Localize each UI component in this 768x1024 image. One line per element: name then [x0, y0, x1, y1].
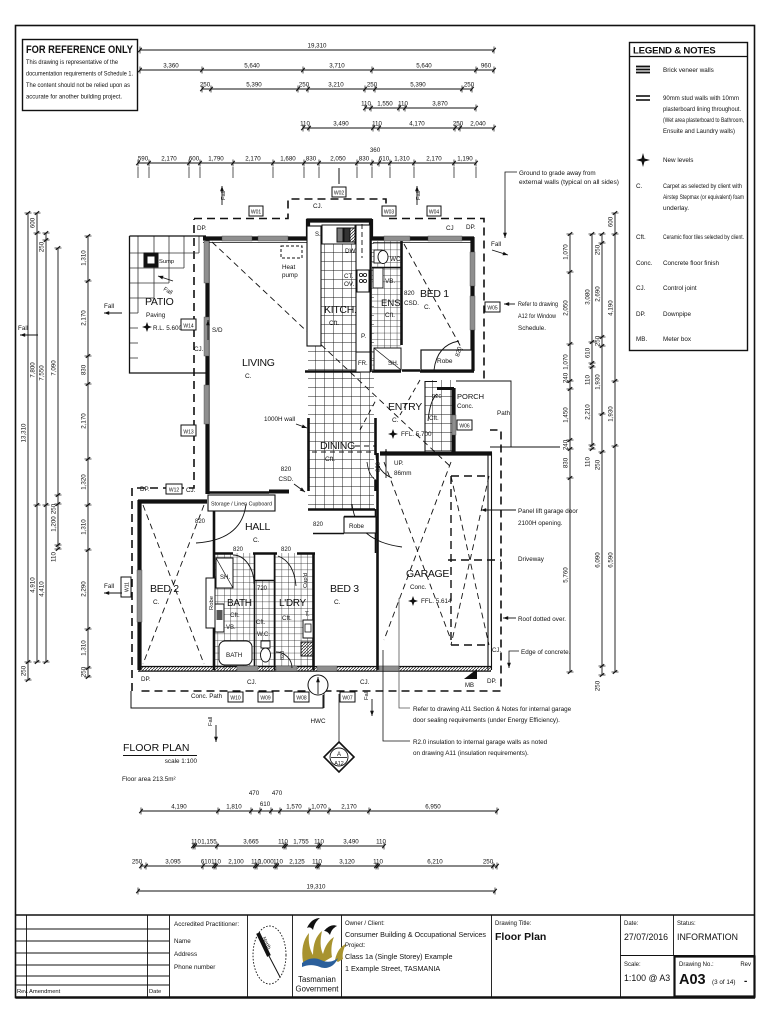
- exterior wall bed2 top: [138, 499, 207, 503]
- svg-text:W08: W08: [296, 696, 307, 702]
- svg-text:OV.: OV.: [344, 281, 355, 288]
- interior wall bath/wc divider: [254, 553, 256, 670]
- exterior wall bed1 right: [470, 237, 474, 371]
- svg-text:MB: MB: [465, 683, 474, 689]
- exterior wall top: [203, 219, 474, 240]
- svg-text:2,040: 2,040: [470, 121, 486, 128]
- left dimension row 2: [30, 211, 41, 664]
- svg-text:19,310: 19,310: [307, 884, 326, 891]
- svg-text:Cft.: Cft.: [282, 615, 292, 622]
- accredited practitioner cell: [174, 915, 248, 998]
- svg-text:1,070: 1,070: [311, 804, 327, 811]
- svg-text:4,170: 4,170: [409, 121, 425, 128]
- svg-text:19,310: 19,310: [308, 43, 327, 50]
- legend symbol new levels: [636, 153, 693, 167]
- legend entry carpet: [636, 183, 744, 212]
- svg-text:3,665: 3,665: [243, 839, 259, 846]
- svg-text:C.: C.: [245, 373, 252, 380]
- svg-text:3,710: 3,710: [329, 63, 345, 70]
- svg-text:1,755: 1,755: [293, 839, 309, 846]
- svg-text:CJ.: CJ.: [194, 346, 204, 353]
- left dimension total 13310: [21, 211, 32, 682]
- interior wall entry/bed3 area vertical: [375, 534, 377, 553]
- bottom dimension row 1: [139, 804, 499, 815]
- kitchen sink unit: [315, 225, 355, 244]
- svg-text:accurate for another building: accurate for another building project.: [26, 94, 122, 101]
- ldry trough: [303, 620, 313, 638]
- wc toilet: [261, 641, 271, 662]
- svg-text:240: 240: [563, 439, 570, 450]
- svg-text:110: 110: [585, 375, 592, 385]
- svg-text:Date:: Date:: [624, 921, 639, 927]
- fall arrow bottom 1: [208, 717, 218, 742]
- svg-text:250: 250: [453, 121, 464, 128]
- svg-text:820: 820: [233, 547, 244, 553]
- svg-text:Conc.: Conc.: [636, 260, 653, 267]
- svg-text:CJ: CJ: [446, 225, 454, 232]
- svg-text:S/D: S/D: [212, 327, 223, 334]
- svg-text:A03: A03: [679, 972, 706, 988]
- svg-text:Fall: Fall: [18, 325, 28, 332]
- for-reference-only note box: [23, 40, 138, 111]
- svg-text:BED 2: BED 2: [150, 583, 179, 595]
- exterior wall bottom: [138, 667, 491, 672]
- fall arrow left margin: [18, 325, 38, 337]
- svg-text:1,810: 1,810: [226, 804, 242, 811]
- svg-text:The content should not be reli: The content should not be relied upon as: [26, 82, 130, 89]
- svg-text:Heat: Heat: [282, 264, 296, 271]
- W05 label box: [485, 302, 500, 312]
- svg-text:ENS.: ENS.: [381, 298, 403, 309]
- svg-text:610: 610: [260, 801, 271, 808]
- svg-text:Paving: Paving: [146, 312, 166, 319]
- svg-text:Robe: Robe: [209, 596, 215, 610]
- svg-text:86mm: 86mm: [394, 470, 412, 477]
- svg-text:Driveway: Driveway: [518, 556, 545, 563]
- garage entry door arc: [367, 462, 378, 481]
- interior wall kitchen/ens divider: [369, 239, 372, 372]
- svg-text:Schedule.: Schedule.: [518, 325, 546, 332]
- svg-text:Rev.: Rev.: [17, 989, 29, 995]
- svg-text:3,490: 3,490: [343, 839, 359, 846]
- meter box: [464, 669, 477, 679]
- svg-text:1,790: 1,790: [208, 156, 224, 163]
- heat pump dashed box: [281, 246, 302, 258]
- svg-text:600: 600: [30, 217, 37, 228]
- svg-text:A12: A12: [334, 761, 344, 767]
- ldry washer hatched: [301, 642, 313, 656]
- svg-text:3,095: 3,095: [165, 859, 181, 866]
- interior wall ens/bed1: [400, 239, 403, 345]
- svg-text:830: 830: [81, 364, 88, 375]
- svg-text:Fall: Fall: [208, 717, 214, 726]
- svg-text:1,320: 1,320: [81, 474, 88, 490]
- section line top tick: [338, 168, 340, 742]
- svg-text:3,490: 3,490: [333, 121, 349, 128]
- svg-text:W07: W07: [342, 696, 353, 702]
- svg-text:470: 470: [272, 790, 283, 797]
- svg-text:BATH: BATH: [227, 598, 252, 609]
- porch door arc: [428, 394, 437, 421]
- svg-text:INFORMATION: INFORMATION: [677, 932, 738, 942]
- svg-text:Path: Path: [497, 410, 510, 417]
- svg-text:250: 250: [464, 82, 475, 89]
- svg-text:DP.: DP.: [140, 486, 150, 493]
- bath door arc + label: [233, 555, 254, 584]
- svg-text:Refer to drawing A11 Section &: Refer to drawing A11 Section & Notes for…: [413, 706, 572, 713]
- svg-text:Airstep Stepmax (or equivalent: Airstep Stepmax (or equivalent) foam: [663, 194, 744, 201]
- svg-text:240: 240: [563, 372, 570, 383]
- svg-text:250: 250: [200, 82, 211, 89]
- svg-text:Fall: Fall: [221, 191, 227, 200]
- top dimension total 19310: [138, 43, 496, 54]
- svg-text:W12: W12: [169, 488, 180, 494]
- svg-text:Ceramic floor tiles selected b: Ceramic floor tiles selected by client.: [663, 234, 744, 241]
- left wall window labels: [181, 319, 196, 330]
- top dimension row 6: [136, 156, 478, 167]
- interior wall wc/ldry divider: [274, 553, 276, 670]
- svg-text:P.: P.: [361, 333, 366, 340]
- svg-text:Ground to grade away from: Ground to grade away from: [519, 170, 596, 177]
- svg-text:3,210: 3,210: [328, 82, 344, 89]
- svg-text:830: 830: [563, 457, 570, 468]
- svg-text:1,930: 1,930: [608, 406, 615, 422]
- svg-text:C.: C.: [334, 599, 341, 606]
- left dimension row 4: [51, 246, 62, 562]
- entry diagonal dashed marks: [360, 380, 420, 430]
- svg-text:2,170: 2,170: [81, 310, 88, 326]
- bed1 door arc: [434, 341, 459, 370]
- svg-text:820: 820: [195, 519, 206, 525]
- svg-text:830: 830: [306, 156, 317, 163]
- svg-text:13,310: 13,310: [21, 423, 28, 442]
- svg-text:3,120: 3,120: [339, 859, 355, 866]
- svg-text:Cft.: Cft.: [429, 415, 439, 422]
- ens wc toilet: [374, 250, 402, 264]
- svg-text:VB.: VB.: [385, 278, 395, 285]
- svg-text:W02: W02: [334, 191, 345, 197]
- svg-text:250: 250: [132, 859, 143, 866]
- interior wall bath left / bed2 right: [213, 502, 216, 670]
- refer to A11 garage door annotation: [399, 598, 572, 724]
- svg-text:1,310: 1,310: [81, 250, 88, 266]
- svg-text:Storage / Linen Cupboard: Storage / Linen Cupboard: [211, 502, 272, 508]
- svg-text:600: 600: [608, 216, 615, 227]
- svg-text:W05: W05: [487, 306, 498, 312]
- garage top wall / porch bottom: [380, 451, 492, 455]
- revision table: [16, 915, 170, 998]
- svg-text:Date: Date: [149, 989, 161, 995]
- svg-text:110: 110: [373, 859, 383, 866]
- top dimension row 4: [361, 101, 478, 112]
- svg-text:DP.: DP.: [197, 225, 207, 232]
- top dimension row 5: [300, 121, 496, 132]
- garage diagonal cross dashed: [384, 462, 489, 645]
- svg-text:4,190: 4,190: [608, 300, 615, 316]
- entry vestibule tiled floor: [425, 380, 452, 451]
- svg-text:1,155: 1,155: [201, 839, 217, 846]
- living room diagonal dashed line: [212, 242, 452, 468]
- exterior wall bed2 left: [137, 500, 141, 670]
- svg-text:Refer to drawing: Refer to drawing: [518, 301, 558, 308]
- panel lift garage door annotation: [481, 508, 578, 527]
- svg-text:250: 250: [483, 859, 494, 866]
- interior wall ens/wc divider: [372, 267, 401, 269]
- svg-text:Panel lift garage door: Panel lift garage door: [518, 508, 578, 515]
- up arrow entry: [385, 449, 387, 478]
- svg-text:2100H opening.: 2100H opening.: [518, 520, 563, 527]
- svg-text:5,760: 5,760: [563, 567, 570, 583]
- right dimension chain 2: [585, 232, 596, 467]
- svg-text:Conc. Path: Conc. Path: [191, 693, 223, 700]
- svg-text:6,950: 6,950: [425, 804, 441, 811]
- svg-text:BED 3: BED 3: [330, 583, 359, 595]
- svg-text:820: 820: [404, 290, 415, 297]
- bath vanity: [215, 604, 224, 632]
- svg-text:CJ.: CJ.: [186, 487, 196, 494]
- svg-text:Tasmanian: Tasmanian: [298, 975, 336, 984]
- interior wall living bottom / hall top: [207, 492, 289, 493]
- svg-text:110: 110: [273, 859, 283, 866]
- svg-text:ENTRY: ENTRY: [388, 401, 422, 413]
- svg-text:C.: C.: [392, 417, 399, 424]
- north arrow: [253, 915, 293, 998]
- fall arrow top right: [491, 241, 508, 255]
- right dimension chain 3: [595, 232, 606, 691]
- svg-text:Class 1a (Single Storey) Examp: Class 1a (Single Storey) Example: [345, 952, 452, 961]
- svg-text:4,190: 4,190: [171, 804, 187, 811]
- svg-text:Fall: Fall: [104, 303, 114, 310]
- bed1 diagonal dashed line: [404, 244, 472, 367]
- svg-text:Rev: Rev: [740, 962, 751, 968]
- drawing title cell: [495, 915, 621, 998]
- interior wall wc top: [254, 580, 275, 582]
- svg-text:110: 110: [585, 457, 592, 467]
- svg-text:CJ.: CJ.: [313, 203, 323, 210]
- patio fall arrow: [158, 276, 173, 281]
- svg-text:3,360: 3,360: [163, 63, 179, 70]
- ensuite-wc tiled floor: [372, 241, 401, 372]
- svg-text:1,680: 1,680: [280, 156, 296, 163]
- svg-text:MB.: MB.: [636, 336, 647, 343]
- exterior wall left (living): [205, 237, 209, 494]
- svg-text:2,125: 2,125: [289, 859, 305, 866]
- svg-text:-: -: [744, 976, 747, 987]
- kitchen bench left: [307, 226, 321, 346]
- svg-text:Address: Address: [174, 951, 197, 958]
- svg-text:Sump: Sump: [159, 259, 174, 265]
- svg-text:7,550: 7,550: [39, 365, 46, 381]
- svg-text:110: 110: [398, 101, 408, 108]
- svg-text:plasterboard lining throughout: plasterboard lining throughout.: [663, 106, 741, 113]
- svg-text:(3 of 14): (3 of 14): [712, 979, 735, 986]
- svg-text:6,090: 6,090: [595, 552, 602, 568]
- fall arrow top 2: [415, 186, 422, 205]
- fall arrow bottom 2: [364, 691, 374, 716]
- svg-text:Cft.: Cft.: [256, 620, 266, 626]
- svg-text:Accredited Practitioner:: Accredited Practitioner:: [174, 921, 239, 928]
- svg-text:door sealing requirements (und: door sealing requirements (under Energy …: [413, 717, 560, 724]
- svg-text:(Wet area plasterboard to Bath: (Wet area plasterboard to Bathroom,: [663, 117, 744, 124]
- svg-text:250: 250: [51, 503, 58, 514]
- bed2 robe rotated: [206, 578, 215, 628]
- svg-text:LEGEND & NOTES: LEGEND & NOTES: [633, 46, 716, 57]
- svg-text:scale 1:100: scale 1:100: [165, 758, 198, 765]
- svg-text:1,310: 1,310: [81, 640, 88, 656]
- svg-text:W11: W11: [125, 582, 131, 592]
- svg-text:2,050: 2,050: [563, 300, 570, 316]
- svg-text:5,640: 5,640: [416, 63, 432, 70]
- legend symbol stud walls: [636, 95, 744, 135]
- svg-text:1,000: 1,000: [258, 859, 274, 866]
- svg-text:Carpet as selected by client w: Carpet as selected by client with: [663, 183, 742, 190]
- right dimension chain 1: [563, 232, 574, 674]
- svg-text:1,570: 1,570: [286, 804, 302, 811]
- svg-text:6,210: 6,210: [427, 859, 443, 866]
- svg-text:W10: W10: [230, 696, 241, 702]
- svg-text:610: 610: [585, 347, 592, 358]
- svg-text:T.: T.: [305, 612, 310, 618]
- svg-text:Floor area 213.5m²: Floor area 213.5m²: [122, 776, 176, 783]
- svg-text:7,800: 7,800: [30, 362, 37, 378]
- svg-text:110: 110: [372, 121, 382, 128]
- legend symbol brick veneer walls: [636, 67, 714, 75]
- svg-text:830: 830: [359, 156, 370, 163]
- svg-text:4,910: 4,910: [30, 577, 37, 593]
- roof outline dashed: [132, 199, 501, 691]
- bed2 diagonal cross dashed: [143, 505, 204, 664]
- svg-text:1,070: 1,070: [563, 354, 570, 370]
- storage linen cupboard: [208, 495, 275, 511]
- porch top wall: [437, 387, 454, 390]
- svg-text:250: 250: [39, 241, 46, 252]
- fall arrow left 1: [104, 303, 122, 315]
- svg-text:A12 for Window: A12 for Window: [518, 313, 556, 320]
- svg-text:Fall: Fall: [491, 241, 501, 248]
- svg-text:Phone number: Phone number: [174, 964, 215, 971]
- svg-text:CJ.: CJ.: [636, 285, 646, 292]
- ldry door arc + label: [278, 556, 296, 586]
- svg-text:BATH: BATH: [226, 652, 243, 659]
- patio sump: [144, 253, 158, 267]
- svg-text:110: 110: [51, 552, 58, 562]
- svg-text:CJ.: CJ.: [360, 679, 370, 686]
- concrete path edge line: [131, 691, 323, 708]
- svg-text:DP.: DP.: [466, 224, 476, 231]
- svg-text:Owner / Client:: Owner / Client:: [345, 921, 385, 927]
- svg-text:Government: Government: [296, 985, 340, 994]
- wc tiled floor: [255, 580, 275, 670]
- svg-text:820: 820: [313, 522, 324, 528]
- fridge space: [356, 352, 370, 372]
- svg-text:1,190: 1,190: [457, 156, 473, 163]
- svg-text:FFL. 5.614: FFL. 5.614: [421, 598, 452, 605]
- scale cell: [624, 962, 670, 983]
- svg-text:Cft.: Cft.: [636, 234, 646, 241]
- svg-text:R.L. 5.600: R.L. 5.600: [153, 325, 183, 332]
- porch floor: [456, 380, 490, 451]
- svg-text:Concrete floor finish: Concrete floor finish: [663, 260, 719, 267]
- ldry external door arc: [276, 652, 292, 668]
- svg-text:FOR REFERENCE ONLY: FOR REFERENCE ONLY: [26, 44, 133, 56]
- svg-text:DW.: DW.: [345, 248, 357, 255]
- svg-text:3,870: 3,870: [432, 101, 448, 108]
- svg-text:90mm stud walls with 10mm: 90mm stud walls with 10mm: [663, 95, 739, 102]
- svg-text:27/07/2016: 27/07/2016: [624, 932, 668, 942]
- svg-text:820: 820: [281, 466, 292, 473]
- svg-text:UP.: UP.: [394, 460, 404, 467]
- svg-text:Conc.: Conc.: [457, 403, 474, 410]
- bottom dimension total 19310: [136, 884, 497, 895]
- bottom dimension row 3: [132, 859, 499, 870]
- svg-text:Edge of concrete.: Edge of concrete.: [521, 649, 571, 656]
- svg-text:WC.: WC.: [390, 256, 402, 263]
- svg-text:This drawing is representative: This drawing is representative of the: [26, 59, 118, 66]
- svg-text:250: 250: [367, 82, 378, 89]
- svg-text:W14: W14: [183, 324, 194, 330]
- svg-text:Status:: Status:: [677, 921, 696, 927]
- garage right wall: [488, 453, 492, 670]
- right dimension chain 4: [608, 211, 619, 674]
- top dimension row 2: [138, 63, 496, 74]
- svg-text:960: 960: [481, 63, 492, 70]
- left dimension row 3: [39, 231, 50, 664]
- svg-text:2,170: 2,170: [81, 413, 88, 429]
- svg-text:2,170: 2,170: [426, 156, 442, 163]
- svg-text:250: 250: [81, 666, 88, 677]
- refer to A12 window schedule annotation: [504, 301, 558, 332]
- title block frame: [16, 915, 756, 998]
- floor plan title: [122, 742, 197, 783]
- svg-text:110: 110: [278, 839, 288, 846]
- top dimension extension lines: [138, 167, 476, 178]
- svg-text:C.: C.: [636, 183, 643, 190]
- edge of concrete annotation: [507, 649, 571, 668]
- owner client cell: [345, 915, 492, 998]
- svg-text:250: 250: [595, 680, 602, 691]
- svg-text:110: 110: [300, 121, 310, 128]
- svg-text:2,290: 2,290: [81, 581, 88, 597]
- bathroom tiled floor: [215, 553, 255, 670]
- svg-text:590: 590: [138, 156, 149, 163]
- svg-text:470: 470: [249, 790, 260, 797]
- svg-text:Fall: Fall: [416, 191, 422, 200]
- svg-text:1,310: 1,310: [81, 519, 88, 535]
- svg-text:1 Example Street, TASMANIA: 1 Example Street, TASMANIA: [345, 964, 440, 973]
- porch left wall: [451, 388, 455, 452]
- svg-text:600: 600: [189, 156, 200, 163]
- svg-text:documentation requirements of: documentation requirements of Schedule 1…: [26, 71, 133, 78]
- section marker A-A12: [324, 742, 354, 772]
- svg-text:110: 110: [312, 859, 322, 866]
- svg-text:1,550: 1,550: [377, 101, 393, 108]
- svg-text:250: 250: [595, 335, 602, 346]
- 1000H wall dining left: [307, 418, 310, 491]
- svg-text:110: 110: [314, 839, 324, 846]
- tasmanian government logo: [296, 915, 346, 998]
- svg-text:pump: pump: [282, 272, 298, 279]
- svg-text:720: 720: [257, 586, 268, 592]
- window W01 markers on top wall: [137, 236, 475, 671]
- svg-text:110: 110: [211, 859, 221, 866]
- svg-text:1,310: 1,310: [394, 156, 410, 163]
- svg-text:7,090: 7,090: [51, 360, 58, 376]
- interior wall hall bottom / bath ldry top: [213, 552, 315, 555]
- left dimension inner chain: [81, 234, 92, 679]
- svg-text:920: 920: [432, 394, 442, 400]
- svg-text:CJ.: CJ.: [247, 679, 257, 686]
- svg-text:2,100: 2,100: [228, 859, 244, 866]
